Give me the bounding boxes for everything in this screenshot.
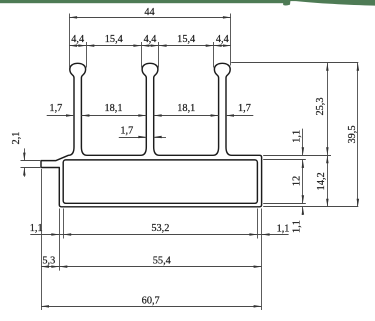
svg-text:1,7: 1,7 <box>120 126 133 137</box>
svg-text:5,3: 5,3 <box>42 255 55 266</box>
svg-text:1,7: 1,7 <box>238 103 251 114</box>
svg-text:1,1: 1,1 <box>277 223 290 234</box>
svg-text:18,1: 18,1 <box>177 103 195 114</box>
svg-text:60,7: 60,7 <box>142 296 160 307</box>
svg-text:1,1: 1,1 <box>30 223 43 234</box>
svg-text:18,1: 18,1 <box>104 103 122 114</box>
svg-text:1,1: 1,1 <box>292 220 303 233</box>
svg-text:4,4: 4,4 <box>71 34 84 45</box>
svg-text:44: 44 <box>144 7 154 18</box>
svg-text:39,5: 39,5 <box>347 125 358 143</box>
svg-text:15,4: 15,4 <box>105 34 123 45</box>
svg-text:55,4: 55,4 <box>153 255 171 266</box>
svg-text:2,1: 2,1 <box>11 132 22 145</box>
svg-text:4,4: 4,4 <box>144 34 157 45</box>
svg-text:1,7: 1,7 <box>49 103 62 114</box>
svg-text:53,2: 53,2 <box>151 223 169 234</box>
svg-text:1,1: 1,1 <box>292 130 303 143</box>
svg-text:14,2: 14,2 <box>316 172 327 190</box>
svg-text:12: 12 <box>291 176 302 186</box>
svg-text:4,4: 4,4 <box>216 34 229 45</box>
svg-text:15,4: 15,4 <box>177 34 195 45</box>
svg-text:25,3: 25,3 <box>315 97 326 115</box>
